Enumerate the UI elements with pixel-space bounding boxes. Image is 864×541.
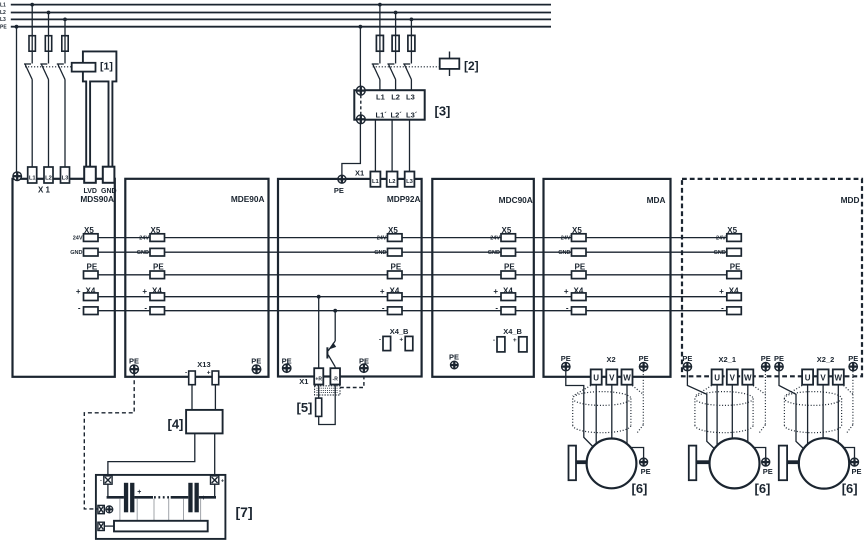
svg-text:X4: X4	[574, 286, 584, 295]
PE screw inside [7]	[106, 506, 113, 513]
svg-text:PE: PE	[504, 262, 515, 271]
capacitor C2	[188, 483, 199, 513]
fuse F2	[45, 36, 51, 52]
svg-text:L3´: L3´	[406, 111, 418, 120]
wire U phase motor3	[807, 385, 809, 446]
terminal X4 plus MDE90A	[150, 293, 165, 301]
wire V phase motor3	[822, 385, 824, 440]
svg-text:X4: X4	[503, 286, 513, 295]
contactor link dotted left	[25, 66, 72, 68]
node L2 tap left	[47, 11, 51, 15]
terminal X4_B plus MDC90A	[519, 337, 527, 352]
terminal X1 L2 MDP92A	[387, 172, 398, 187]
svg-text:PE: PE	[251, 357, 261, 366]
svg-text:L3: L3	[406, 179, 414, 185]
svg-text:X 1: X 1	[38, 186, 51, 195]
fuse F4	[376, 35, 383, 51]
wire PE conductor motor2	[687, 371, 715, 450]
cable shield motor1	[573, 371, 644, 433]
svg-text:PE: PE	[359, 357, 369, 366]
svg-text:+: +	[513, 337, 517, 344]
terminal X4 minus MDD	[727, 307, 742, 315]
svg-text:MDE90A: MDE90A	[231, 194, 265, 204]
terminal X1 PE screw MDP92A	[338, 175, 346, 183]
svg-text:X5: X5	[388, 226, 398, 235]
bus labels	[0, 2, 7, 30]
wire L1 to fuse right	[379, 5, 381, 64]
svg-text:[5]: [5]	[297, 400, 313, 415]
svg-text:L2: L2	[45, 176, 52, 182]
terminal X5 24V MDS90A	[84, 234, 99, 242]
svg-text:-: -	[185, 370, 187, 377]
svg-text:[4]: [4]	[168, 417, 184, 432]
svg-text:X4: X4	[390, 286, 400, 295]
svg-text:+R: +R	[315, 377, 322, 383]
svg-text:L3: L3	[0, 17, 6, 23]
svg-text:X5: X5	[502, 226, 512, 235]
terminal [7] side lower	[98, 522, 104, 530]
svg-text:GND: GND	[714, 250, 726, 256]
fuse F1	[29, 36, 35, 52]
svg-text:[6]: [6]	[842, 481, 858, 496]
terminal X1 L1 MDP92A	[370, 172, 380, 187]
svg-text:+: +	[719, 287, 724, 296]
wire +R to resistor	[318, 385, 320, 399]
PE screw MDE90A bottom right	[252, 365, 261, 374]
PE screw motor1	[640, 458, 648, 466]
svg-text:X5: X5	[84, 226, 94, 235]
svg-text:MDC90A: MDC90A	[499, 195, 533, 205]
svg-text:PE: PE	[761, 354, 771, 363]
svg-text:[1]: [1]	[100, 61, 113, 73]
bus PE	[11, 26, 551, 28]
svg-text:X4_B: X4_B	[503, 327, 522, 336]
terminal PE MDS90A	[84, 271, 99, 279]
module MDP92A box	[278, 179, 422, 377]
wire [4] to [7] left	[108, 433, 195, 476]
svg-text:X5: X5	[572, 226, 582, 235]
PE screw left of X2	[562, 362, 570, 370]
svg-text:W: W	[623, 374, 631, 383]
wire filter out L3	[409, 120, 411, 172]
svg-text:PE: PE	[561, 354, 571, 363]
terminal X1 PE screw MDS90A	[13, 172, 22, 181]
wire W phase motor2	[747, 385, 749, 444]
svg-text:24V: 24V	[490, 236, 500, 242]
terminal X1 L3 MDS90A	[61, 167, 70, 183]
bus L2	[11, 12, 551, 14]
terminal X1 L2 MDS90A	[44, 167, 53, 183]
module MDE90A box	[125, 179, 268, 377]
svg-text:+: +	[137, 489, 141, 496]
svg-text:PE: PE	[87, 262, 98, 271]
wire side terminal to resistor	[104, 525, 114, 527]
svg-text:L3: L3	[406, 93, 415, 102]
svg-text:L1: L1	[376, 93, 385, 102]
terminal LVD MDS90A	[84, 167, 96, 183]
svg-text:MDP92A: MDP92A	[387, 194, 421, 204]
wires gray balancing	[120, 499, 201, 521]
shield clamp MDP92A	[315, 386, 340, 395]
device [4]	[186, 410, 223, 434]
svg-text:MDD: MDD	[841, 195, 860, 205]
PE screw MDP92A bottom left	[283, 364, 291, 372]
wire L2 to fuse right	[395, 13, 397, 64]
resistor discharge [7]	[114, 521, 208, 532]
PE screw motor3	[851, 458, 859, 466]
svg-text:PE: PE	[852, 467, 862, 476]
resistor braking [5]	[316, 398, 322, 416]
terminal X5 24V MDE90A	[150, 234, 165, 242]
svg-text:L1: L1	[0, 2, 6, 8]
svg-text:-R: -R	[333, 377, 339, 383]
svg-text:U: U	[805, 374, 811, 383]
PE screw right of X2_1	[762, 362, 770, 370]
PE screw right of X2_2	[849, 362, 857, 370]
svg-text:PE: PE	[774, 354, 784, 363]
svg-text:X2: X2	[607, 355, 616, 364]
shaft flange motor1	[569, 446, 577, 481]
svg-text:V: V	[820, 374, 826, 383]
svg-text:24V: 24V	[377, 236, 387, 242]
terminal X4 plus MDA	[572, 293, 587, 301]
PE screw right of X2	[639, 362, 647, 370]
svg-text:MDA: MDA	[647, 195, 666, 205]
contactor link dotted right	[373, 66, 440, 68]
bus L3	[11, 18, 551, 20]
svg-text:W: W	[835, 374, 843, 383]
svg-text:X2_2: X2_2	[817, 355, 835, 364]
terminal X5 GND MDA	[572, 248, 587, 256]
capacitor C1	[124, 483, 135, 513]
terminal X5 GND MDC90A	[501, 248, 516, 256]
transistor chopper Q1	[327, 341, 336, 368]
terminal X2_2 V	[818, 369, 829, 384]
module MDD box dashed	[682, 179, 862, 376]
svg-text:PE: PE	[763, 467, 773, 476]
capacitor module [7] box	[96, 475, 226, 539]
contactor coil [1]	[72, 63, 96, 72]
svg-text:GND: GND	[101, 188, 117, 195]
svg-text:PE: PE	[391, 262, 402, 271]
svg-text:GND: GND	[137, 250, 149, 256]
wire [7] right terminal down	[214, 484, 216, 496]
fuse F3	[62, 36, 68, 52]
wire link LVD-GND thick loop	[83, 51, 117, 166]
terminal X4 plus MDS90A	[84, 293, 99, 301]
terminal X2_1 W	[742, 369, 753, 384]
svg-text:-: -	[721, 303, 724, 312]
cable shield motor3	[784, 371, 853, 433]
wire PE conductor motor1	[566, 371, 594, 448]
svg-text:L2: L2	[391, 93, 400, 102]
terminal PE MDC90A	[501, 271, 516, 279]
labels rows MDD	[727, 226, 741, 296]
svg-text:-: -	[100, 477, 102, 483]
svg-text:-: -	[78, 303, 81, 312]
wire PE conductor motor3	[779, 371, 805, 450]
wire [4] to [7] right	[214, 433, 216, 476]
shaft flange motor2	[689, 446, 697, 481]
node DC+ tap MDP92A	[317, 295, 321, 299]
svg-text:PE: PE	[639, 354, 649, 363]
terminal [7] side PE	[98, 505, 104, 513]
terminal X5 24V MDC90A	[501, 234, 516, 242]
svg-text:PE: PE	[129, 357, 139, 366]
motor M3 [6]	[799, 438, 849, 488]
svg-text:+: +	[221, 478, 224, 484]
PE screw left of X2_1	[683, 362, 691, 370]
labels rows MDC90A	[502, 226, 516, 296]
svg-text:PE: PE	[449, 352, 459, 361]
wire [7] DC bus dotted middle	[154, 496, 170, 498]
wire PE to MDP92A X1	[342, 27, 361, 175]
wire DC- to chopper	[334, 311, 336, 341]
terminal X5 24V MDA	[572, 234, 587, 242]
node L1 tap right	[378, 3, 382, 7]
contactor contact K1.3	[57, 64, 65, 167]
wire filter out L1	[374, 120, 376, 172]
terminal X4 minus MDE90A	[150, 307, 165, 315]
svg-text:PE: PE	[153, 262, 164, 271]
svg-text:GND: GND	[488, 250, 500, 256]
PE screw MDE90A bottom left	[130, 365, 139, 374]
fuse F5	[392, 35, 399, 51]
terminal PE MDD	[727, 271, 742, 279]
filter PE screw bottom	[356, 115, 365, 124]
wire dashed PE MDE90A to [7]	[84, 374, 134, 509]
svg-text:24V: 24V	[716, 236, 726, 242]
svg-text:+: +	[493, 287, 498, 296]
contactor contact K1.1	[24, 64, 32, 167]
contactor contact K1.2	[40, 64, 48, 167]
svg-text:24V: 24V	[561, 236, 571, 242]
bus row GND	[98, 251, 727, 253]
svg-text:[6]: [6]	[755, 481, 771, 496]
labels rows MDS90A	[84, 226, 98, 296]
svg-text:-: -	[493, 337, 495, 344]
terminal PE MDE90A	[150, 271, 165, 279]
wire X13- to [4]	[191, 385, 193, 410]
terminal PE MDP92A	[388, 271, 403, 279]
wire resistor to -R	[319, 385, 336, 425]
PE screw MDP92A bottom right	[360, 364, 368, 372]
terminal X5 GND MDP92A	[388, 248, 403, 256]
node L3 tap left	[63, 18, 67, 22]
svg-text:L2´: L2´	[391, 111, 403, 120]
svg-text:[3]: [3]	[435, 104, 451, 119]
wire motor3 PE link	[843, 448, 855, 458]
contactor contact K2.3	[403, 64, 411, 90]
terminal X1 L1 MDS90A	[28, 167, 37, 183]
wire dashed clamp to PE	[340, 375, 364, 388]
svg-text:PE: PE	[334, 186, 344, 195]
svg-text:U: U	[593, 374, 599, 383]
node L2 tap right	[394, 11, 398, 15]
svg-text:X4: X4	[86, 286, 96, 295]
terminal [7] top right	[211, 476, 219, 484]
wire U phase motor2	[716, 385, 718, 447]
svg-text:-: -	[379, 337, 381, 344]
svg-text:[2]: [2]	[464, 59, 479, 73]
svg-text:V: V	[730, 374, 736, 383]
wire motor1 PE link	[630, 448, 644, 458]
svg-text:U: U	[714, 374, 720, 383]
labels rows MDE90A	[151, 226, 165, 296]
svg-text:+: +	[202, 495, 206, 502]
bus row DC+	[98, 296, 727, 298]
svg-text:X4: X4	[152, 286, 162, 295]
svg-text:24V: 24V	[73, 236, 83, 242]
svg-text:L2: L2	[389, 179, 396, 185]
terminal X4 plus MDD	[727, 293, 742, 301]
wire L1 to fuse	[31, 5, 33, 64]
svg-text:-: -	[382, 303, 385, 312]
shaft flange motor3	[779, 446, 787, 481]
fuse F6	[408, 35, 415, 51]
contactor contact K2.1	[372, 64, 380, 90]
svg-text:X1: X1	[299, 377, 308, 386]
bus row DC-	[98, 310, 727, 312]
terminal X1 L3 MDP92A	[405, 172, 415, 187]
terminal X1 -R MDP92A	[330, 368, 340, 384]
svg-text:+: +	[76, 287, 81, 296]
svg-text:+: +	[207, 370, 211, 377]
svg-text:X1: X1	[355, 168, 364, 177]
svg-text:+: +	[399, 337, 403, 344]
svg-text:GND: GND	[558, 250, 570, 256]
terminal X4 minus MDP92A	[388, 307, 403, 315]
svg-text:+: +	[142, 287, 147, 296]
wire motor2 PE link	[753, 448, 766, 458]
module MDA box	[544, 179, 671, 377]
svg-text:PE: PE	[682, 354, 692, 363]
node PE tap right	[359, 25, 363, 29]
svg-text:W: W	[744, 374, 752, 383]
terminal X2_1 U	[712, 369, 723, 384]
terminal X2 U	[591, 369, 602, 384]
terminal X2_1 V	[727, 369, 738, 384]
cable shield motor2	[695, 371, 766, 433]
line filter [3] box	[354, 90, 424, 120]
wire U phase motor1	[595, 385, 597, 445]
wire X13+ to [4]	[214, 385, 216, 410]
wire filter out L2	[391, 120, 393, 172]
terminal X13 plus	[212, 371, 219, 385]
svg-text:L1: L1	[372, 179, 380, 185]
labels rows MDA	[572, 226, 586, 296]
svg-text:X4_B: X4_B	[390, 327, 409, 336]
wire [7] left terminal down	[107, 484, 109, 496]
terminal PE MDA	[572, 271, 587, 279]
svg-text:X5: X5	[727, 226, 737, 235]
svg-text:GND: GND	[70, 250, 82, 256]
svg-text:X5: X5	[151, 226, 161, 235]
svg-text:PE: PE	[730, 262, 741, 271]
terminal X5 GND MDE90A	[150, 248, 165, 256]
wire L3 to fuse	[64, 19, 66, 63]
terminal X4 minus MDC90A	[501, 307, 516, 315]
terminal X4 minus MDA	[572, 307, 587, 315]
svg-text:MDS90A: MDS90A	[80, 194, 114, 204]
wire W phase motor3	[837, 385, 839, 444]
wire DC+ to +R	[318, 297, 320, 369]
node PE tap left	[15, 25, 19, 29]
wire V phase motor1	[611, 385, 613, 440]
terminal [7] top left	[104, 476, 112, 484]
labels rows MDP92A	[388, 226, 402, 296]
bus row 24V	[98, 237, 727, 239]
svg-text:L1´: L1´	[376, 111, 388, 120]
terminal X4_B minus MDC90A	[497, 337, 505, 352]
terminal X5 GND MDS90A	[84, 248, 99, 256]
node L1 tap left	[30, 3, 34, 7]
module MDC90A box	[432, 179, 534, 377]
terminal X4 plus MDC90A	[501, 293, 516, 301]
terminal X13 minus	[189, 371, 196, 385]
svg-text:X13: X13	[197, 360, 210, 369]
terminal X4 plus MDP92A	[388, 293, 403, 301]
svg-text:PE: PE	[0, 24, 7, 30]
svg-text:X2_1: X2_1	[719, 355, 737, 364]
contactor coil [2]	[440, 52, 460, 77]
terminal X4_B plus MDP92A	[405, 336, 413, 350]
svg-text:GND: GND	[374, 250, 386, 256]
svg-text:V: V	[609, 374, 615, 383]
svg-text:PE: PE	[282, 357, 292, 366]
wire L3 to fuse right	[410, 19, 412, 63]
svg-text:+: +	[380, 287, 385, 296]
wire PE drop to MDS90A	[16, 27, 18, 172]
wire L2 to fuse	[48, 13, 50, 64]
motor M1 [6]	[587, 439, 637, 489]
bus row PE	[98, 274, 727, 276]
terminal X4_B minus MDP92A	[383, 336, 391, 350]
svg-text:[7]: [7]	[236, 504, 253, 520]
svg-text:L1: L1	[29, 176, 37, 182]
PE screw left of X2_2	[775, 362, 783, 370]
svg-text:[6]: [6]	[632, 481, 648, 496]
terminal GND MDS90A	[103, 167, 115, 183]
wire dashed filter PE link	[360, 95, 362, 115]
svg-text:PE: PE	[848, 354, 858, 363]
svg-text:LVD: LVD	[84, 188, 97, 195]
svg-text:24V: 24V	[139, 236, 149, 242]
svg-text:PE: PE	[641, 467, 651, 476]
PE screw MDC90A	[451, 361, 459, 369]
terminal X5 24V MDD	[727, 234, 742, 242]
wire V phase motor2	[731, 385, 733, 440]
node DC- tap MDP92A	[333, 309, 337, 313]
filter PE screw top	[356, 86, 365, 95]
terminal X2 W	[622, 369, 633, 384]
bus L1	[11, 4, 551, 6]
terminal X2 V	[606, 369, 617, 384]
svg-text:-: -	[495, 303, 498, 312]
PE screw motor2	[762, 458, 770, 466]
wire [7] DC bus thick	[107, 496, 216, 499]
svg-text:X4: X4	[729, 286, 739, 295]
motor M2 [6]	[710, 438, 760, 488]
terminal X2_2 W	[833, 369, 844, 384]
svg-text:-: -	[566, 303, 569, 312]
terminal X4 minus MDS90A	[84, 307, 99, 315]
module MDS90A box	[13, 179, 115, 377]
svg-text:+: +	[564, 287, 569, 296]
node L3 tap right	[410, 18, 414, 22]
terminal X5 24V MDP92A	[388, 234, 403, 242]
terminal X1 +R MDP92A	[314, 368, 323, 384]
